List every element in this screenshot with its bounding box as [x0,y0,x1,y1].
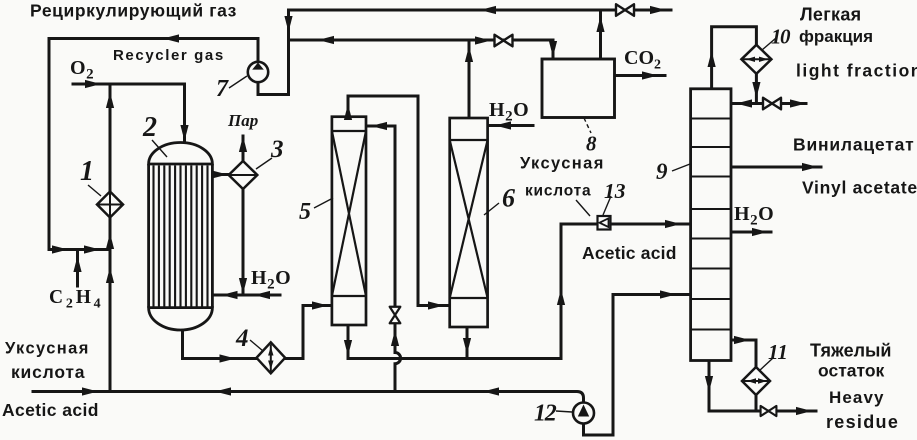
cooler 4 [257,342,286,373]
svg-text:11: 11 [768,340,788,364]
wire: compressor 7 discharge to left recycle line [49,39,258,250]
wire: column 5 bottom stub [347,325,350,359]
pointer line label 10 [762,38,776,50]
wire: riser below valve with hop over collection line [395,323,401,392]
pump 12 [573,403,594,424]
column 5 [332,117,366,325]
wire: bottoms collection line to valve 13 riser [348,224,561,359]
svg-text:13: 13 [604,179,626,203]
pointer line acetic acid to valve 13 [576,200,590,216]
heat exchanger 1 [97,192,123,218]
svg-text:CO2: CO2 [624,47,661,73]
svg-text:9: 9 [656,159,668,184]
wire: reactor bottoms to cooler 4 [183,330,257,359]
wire: acetic acid line through valve 13 into column 9 [561,223,691,226]
svg-text:1: 1 [80,156,94,187]
cooler 4 internal arrows [268,347,273,356]
pointer line label 4 [250,340,263,351]
wire: CO2 outlet [615,74,666,77]
wire: water outlet column 9 [731,231,771,234]
cooler 11 internal arrows [747,378,756,383]
wire: pump 12 discharge into column 9 [613,293,691,296]
svg-text:Vinyl acetate: Vinyl acetate [802,178,917,198]
svg-text:10: 10 [771,25,791,49]
svg-text:остаток: остаток [818,361,885,381]
wire: gas line into separator 8 [289,40,554,59]
svg-text:Acetic acid: Acetic acid [2,400,99,420]
svg-text:H2O: H2O [489,99,529,125]
throttle valve 13 [598,216,611,230]
pointer line label 3 [256,158,272,169]
wire: reactor outlet to exchanger 3 [213,173,229,176]
pointer line label 8 (dashed) [584,118,591,133]
pointer line label 5 [314,198,333,208]
wire: recycle riser into column 5 top x=395 [366,126,395,307]
column 9 [691,89,731,361]
valve on heavy residue line [761,406,777,416]
svg-text:Heavy: Heavy [829,388,885,407]
svg-text:H2O: H2O [251,267,291,293]
pointer line label 1 [88,185,101,196]
separator 8 [542,59,615,118]
wire: top recycle header y=10 [289,9,672,12]
wire: separator 8 vent riser x=600.5 [599,10,602,59]
wire: heavy residue line [709,410,816,413]
svg-text:Рециркулирующий газ: Рециркулирующий газ [30,1,237,21]
svg-text:H2O: H2O [734,203,774,229]
wire: column 6 bottom stub [466,327,469,359]
wire: header drop to compressor loop x=288.5 [258,10,289,95]
svg-text:residue: residue [826,412,899,432]
svg-text:8: 8 [586,132,597,156]
pointer line label 2 [152,140,167,157]
svg-text:C2H4: C2H4 [49,287,103,312]
pointer line label 13 [603,196,611,215]
svg-text:Recycler gas: Recycler gas [113,47,225,64]
pointer line label 7 [229,76,247,88]
valve on recycle header [616,4,634,16]
wire: water line into reactor [213,294,281,297]
svg-text:Легкая: Легкая [800,5,861,25]
pointer line label 9 [672,164,690,171]
svg-text:Уксусная: Уксусная [5,340,90,358]
wire: C2H4 feed stub [76,250,79,287]
svg-text:кислота: кислота [11,362,85,382]
reactor 2 tubes [154,166,208,307]
valve on separator inlet line [495,35,513,47]
heat exchanger 3 [229,161,258,189]
svg-text:light fraction: light fraction [796,61,917,81]
valve on column 5 recycle riser (vertical) [390,307,401,324]
column 6 [450,118,488,327]
svg-text:5: 5 [299,199,311,225]
svg-text:Acetic acid: Acetic acid [582,243,677,263]
wire: column 9 bottom stub [708,361,711,412]
wire: column 5 overhead to column 6 bottom inlet [348,96,450,306]
pointer line label 6 [484,203,499,215]
svg-text:Тяжелый: Тяжелый [810,341,891,361]
wire: cooler 11 outlet [755,395,758,411]
wire: O2 line into reactor top [73,84,185,142]
svg-text:7: 7 [216,76,229,102]
svg-text:фракция: фракция [799,27,873,46]
wire: pump 12 piping [584,295,614,436]
svg-text:Уксусная: Уксусная [520,155,605,173]
svg-text:Винилацетат: Винилацетат [793,135,915,155]
valve on light fraction line [763,98,781,110]
wire: exchanger 3 down leg [242,189,245,295]
svg-text:3: 3 [270,136,284,163]
svg-text:2: 2 [142,112,157,143]
compressor 7 [248,62,268,82]
svg-text:4: 4 [235,325,249,352]
svg-text:12: 12 [534,401,557,427]
svg-text:Пар: Пар [227,111,258,130]
condenser 10 [741,45,771,74]
wire: column 9 overhead through condenser 10 [712,27,757,104]
wire: main feed riser x=110 [109,84,112,392]
wire: column 9 side draw to cooler 11 [731,340,756,367]
svg-text:кислота: кислота [525,183,591,200]
wire: cooler 4 to column 5 inlet [285,306,332,359]
svg-text:6: 6 [502,184,515,213]
wire: acetic acid feed line y=391.5 [33,392,584,403]
wire: vinyl acetate outlet [731,166,821,169]
pointer line label 11 [759,358,773,371]
wire: H2O line into column 6 [488,124,533,127]
flow arrows [480,6,496,14]
svg-text:O2: O2 [70,57,94,83]
reactor 2 shell [149,143,213,331]
condenser 10 internal arrows [746,57,755,62]
wire: reflux / light fraction line [731,102,806,105]
wire: steam riser above exchanger 3 [242,136,245,161]
wire: column 6 overhead riser [468,42,471,118]
cooler 11 [742,367,770,395]
pointer line label 12 [556,411,572,412]
